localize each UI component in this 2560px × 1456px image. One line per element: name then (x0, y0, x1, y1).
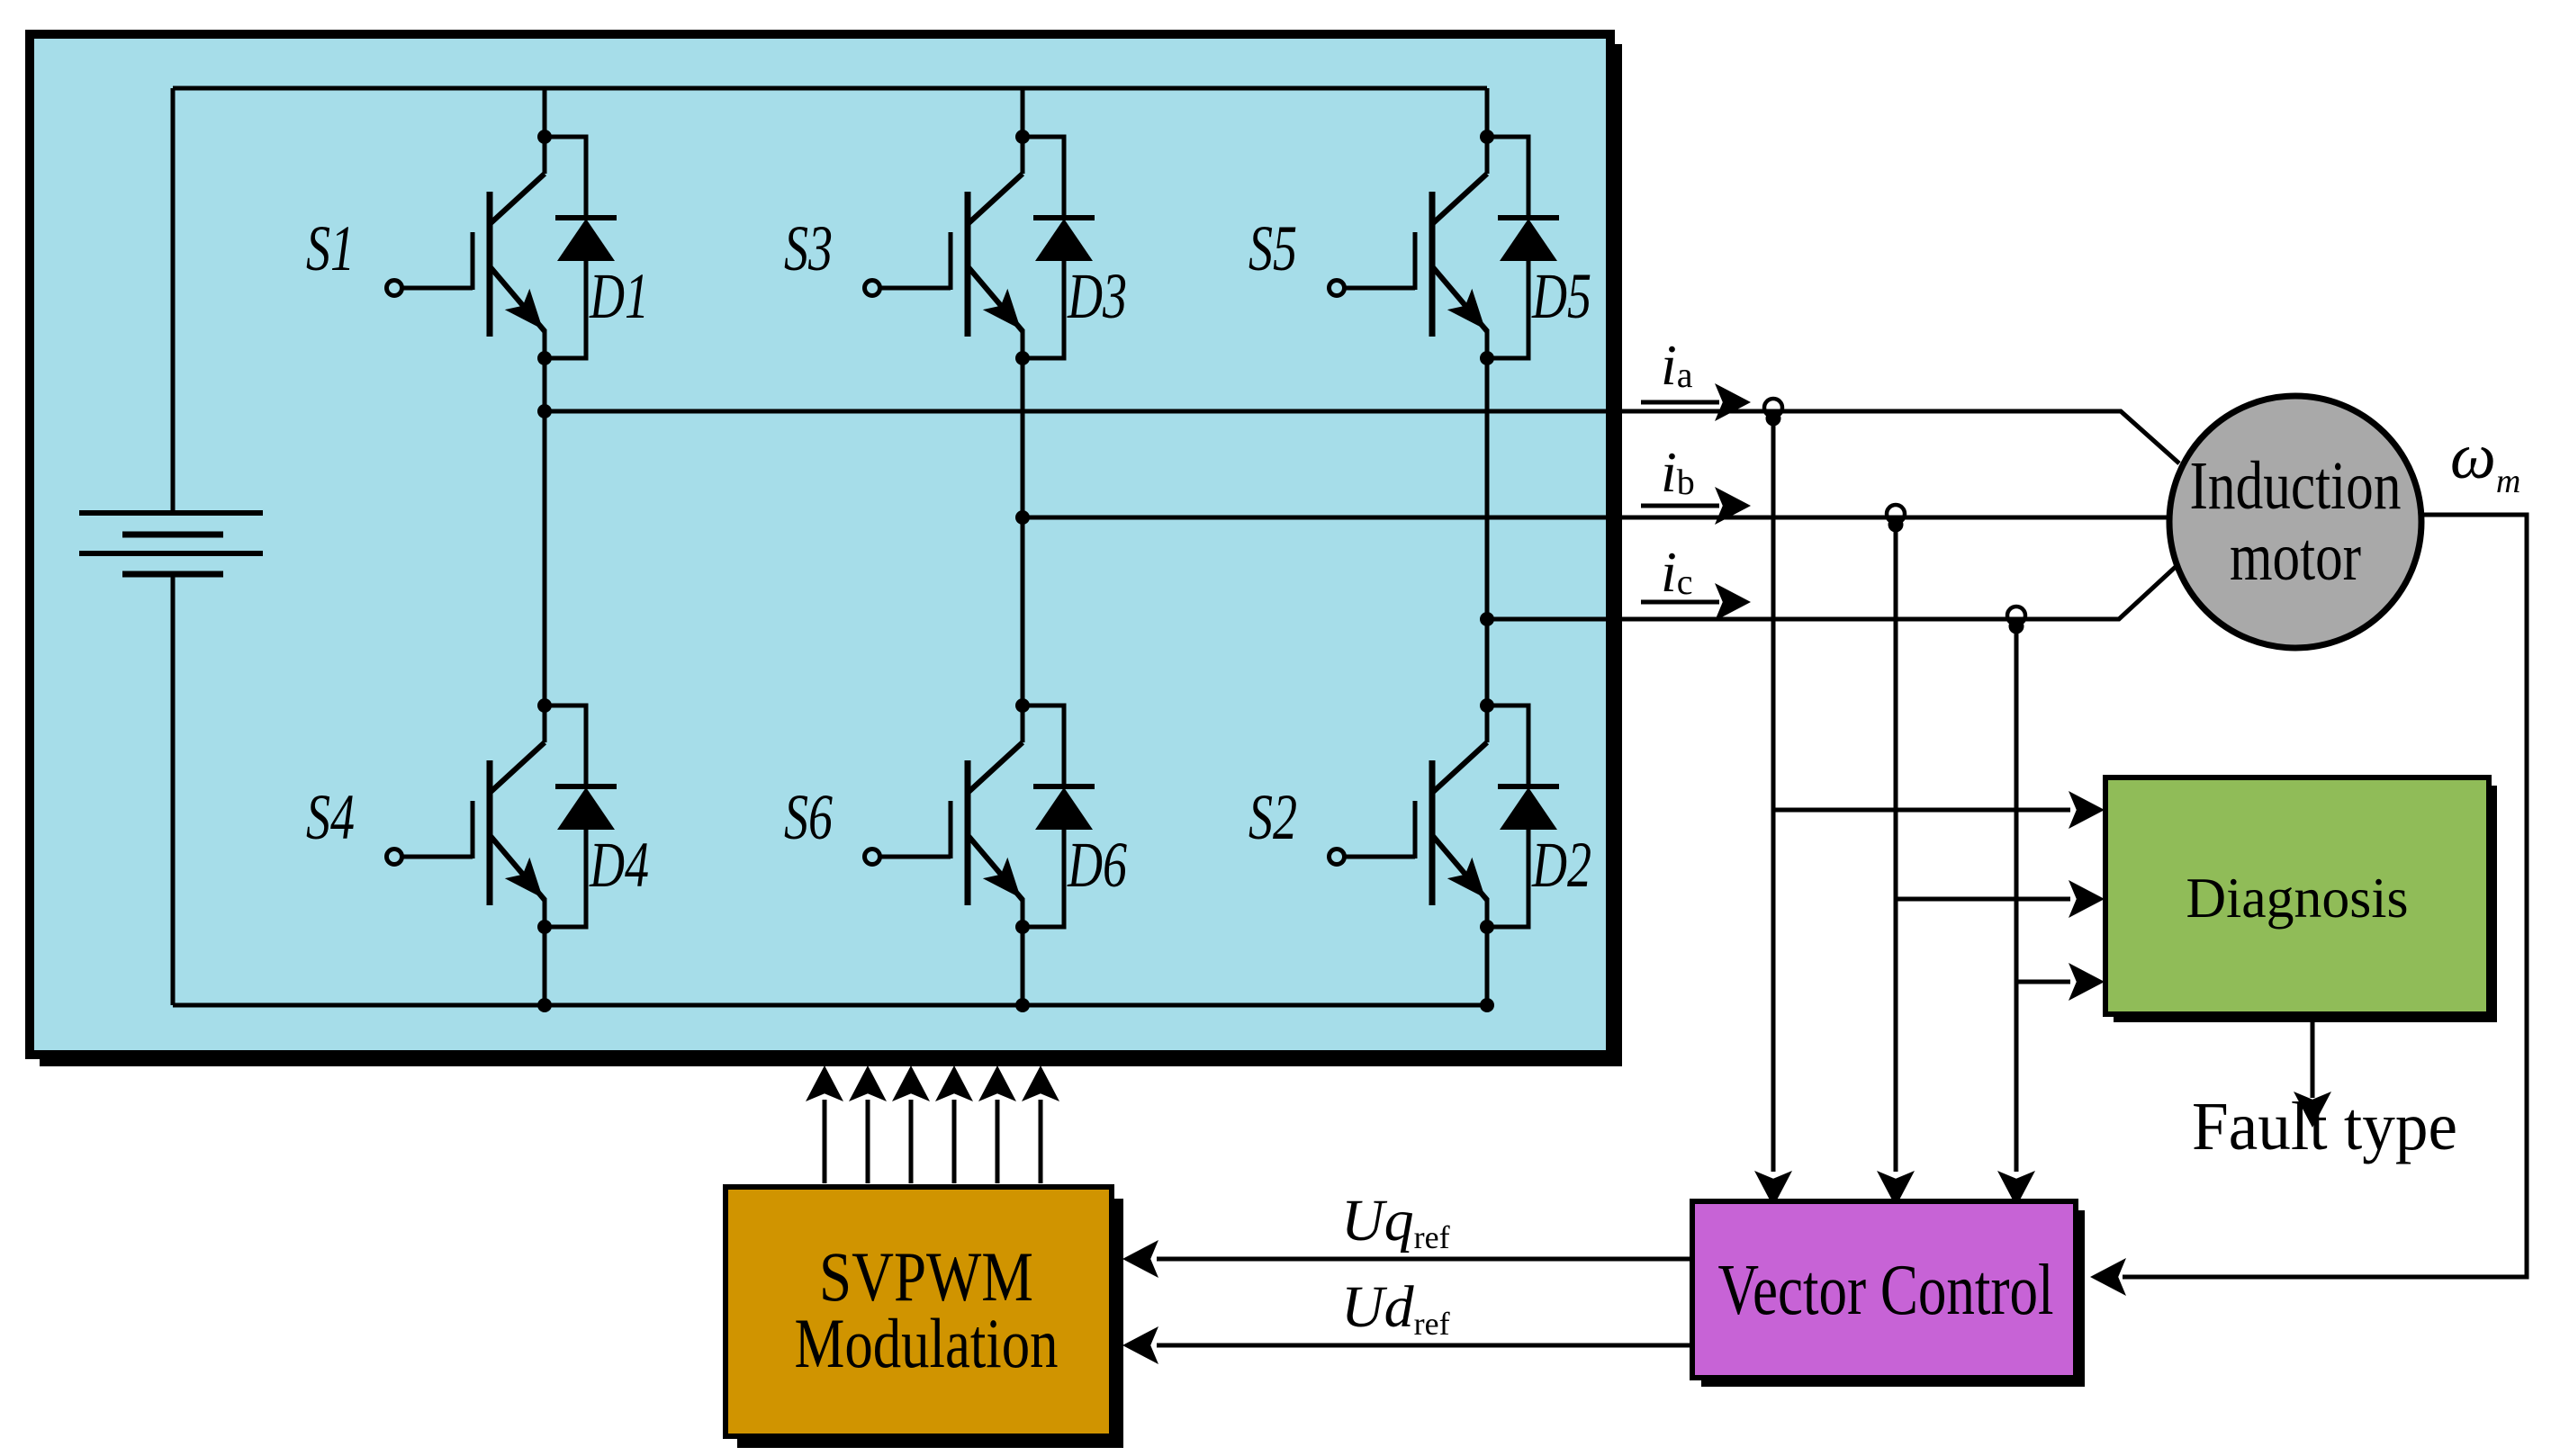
arrow: gate signal 2 into inverter (849, 1065, 887, 1101)
node: current sensor tap phase a (1762, 399, 1784, 427)
collector node of S1 (537, 130, 552, 144)
IGBT transistor S6 (865, 742, 1023, 905)
arrow: omega into vector control (2090, 1258, 2126, 1296)
IGBT transistor S1 (387, 174, 545, 337)
node: current sensor tap phase b (1885, 505, 1906, 533)
arrow: into diagnosis at y=900 (2069, 791, 2105, 829)
svpwm block shadow (737, 1199, 1123, 1448)
wire: Ud_ref (1157, 1344, 1690, 1348)
wire: phase b output (1023, 516, 2171, 520)
svg-text:Vector Control: Vector Control (1718, 1251, 2054, 1330)
diode D6 (1023, 706, 1095, 927)
arrow: gate signal 4 into inverter (935, 1065, 973, 1101)
arrow: Ud_ref into SVPWM (1122, 1326, 1158, 1364)
wire: gate signal 5 (996, 1100, 1000, 1183)
arrow: i_a direction (1641, 400, 1719, 405)
emitter node of S4 (537, 920, 552, 934)
arrow: i_b direction (1641, 504, 1719, 508)
arrow: gate signal 3 into inverter (892, 1065, 930, 1101)
arrow: tap c into vector control (1997, 1171, 2035, 1207)
collector node of S3 (1015, 130, 1030, 144)
svg-text:D4: D4 (589, 829, 649, 901)
wire: phase c output (1487, 564, 2178, 619)
svg-text:S3: S3 (784, 212, 833, 284)
svg-text:D6: D6 (1067, 829, 1127, 901)
vector control block shadow (1701, 1210, 2085, 1387)
wire: leg 2 upper (1021, 88, 1025, 174)
arrow: gate signal 6 into inverter (1022, 1065, 1059, 1101)
wire: phase a output (545, 411, 2179, 463)
collector node of S6 (1015, 698, 1030, 713)
junction: leg 3 to negative rail (1480, 998, 1494, 1012)
svg-text:S1: S1 (306, 212, 355, 284)
IGBT transistor S4 (387, 742, 545, 905)
wire: branch x=1970 to diagnosis (1773, 808, 2070, 813)
wire: battery negative lead (171, 574, 176, 1005)
node: current sensor tap phase c (2006, 607, 2027, 634)
inverter block (light blue) (30, 34, 1610, 1055)
arrow: gate signal 1 into inverter (806, 1065, 843, 1101)
diode D4 (545, 706, 617, 927)
collector node of S5 (1480, 130, 1494, 144)
wire: tap c down to vector control (2015, 625, 2019, 1172)
diagnosis block (2105, 777, 2489, 1014)
wire: diagnosis output (2311, 1017, 2315, 1098)
arrow: into diagnosis at y=999 (2069, 880, 2105, 918)
svg-text:Fault type: Fault type (2192, 1089, 2457, 1164)
arrow: gate signal 5 into inverter (978, 1065, 1016, 1101)
svpwm modulation block (726, 1187, 1112, 1436)
wire: leg 2 lower (1021, 898, 1025, 1005)
wire: leg 1 middle (543, 329, 547, 742)
arrow: to fault type (2294, 1092, 2331, 1128)
diode D3 (1023, 137, 1095, 358)
junction: phase a at leg (537, 404, 552, 418)
IGBT transistor S2 (1330, 742, 1488, 905)
IGBT transistor S3 (865, 174, 1023, 337)
inverter block shadow (40, 44, 1622, 1066)
wire: tap b down to vector control (1894, 523, 1898, 1172)
emitter node of S5 (1480, 351, 1494, 365)
svg-text:D2: D2 (1531, 829, 1591, 901)
IGBT transistor S5 (1330, 174, 1488, 337)
diode D5 (1487, 137, 1559, 358)
svg-text:S4: S4 (306, 781, 355, 853)
svg-text:Induction: Induction (2190, 448, 2402, 524)
wire: leg 3 middle (1485, 329, 1490, 742)
arrow: tap b into vector control (1877, 1171, 1915, 1207)
svg-text:S6: S6 (784, 781, 833, 853)
wire: negative DC rail (173, 1003, 1487, 1008)
collector node of S4 (537, 698, 552, 713)
arrow: i_c direction (1641, 600, 1719, 605)
arrow: into diagnosis at y=1091 (2069, 963, 2105, 1001)
junction: phase b at leg (1015, 510, 1030, 525)
arrow: tap a into vector control (1754, 1171, 1792, 1207)
svg-text:D5: D5 (1531, 260, 1591, 332)
emitter node of S6 (1015, 920, 1030, 934)
emitter node of S2 (1480, 920, 1494, 934)
wire: tap a down to vector control (1771, 417, 1776, 1172)
svg-text:S2: S2 (1248, 781, 1297, 853)
junction: phase c at leg (1480, 612, 1494, 626)
induction motor (2169, 396, 2421, 648)
diode D2 (1487, 706, 1559, 927)
wire: speed feedback omega_m (2123, 515, 2527, 1277)
wire: branch x=2106 to diagnosis (1896, 897, 2070, 902)
junction: leg 1 to negative rail (537, 998, 552, 1012)
svg-text:Modulation: Modulation (795, 1304, 1059, 1382)
wire: leg 3 lower (1485, 898, 1490, 1005)
svg-text:D1: D1 (589, 260, 649, 332)
svg-text:D3: D3 (1067, 260, 1127, 332)
diagnosis block shadow (2114, 786, 2497, 1022)
wire: leg 2 middle (1021, 329, 1025, 742)
svg-text:Diagnosis: Diagnosis (2186, 866, 2409, 930)
arrow: Uq_ref into SVPWM (1122, 1240, 1158, 1278)
wire: gate signal 2 (866, 1100, 870, 1183)
emitter node of S3 (1015, 351, 1030, 365)
wire: gate signal 3 (909, 1100, 914, 1183)
wire: branch x=2240 to diagnosis (2016, 980, 2070, 984)
svg-text:S5: S5 (1248, 212, 1297, 284)
wire: battery positive lead (171, 88, 176, 513)
wire: leg 3 upper (1485, 88, 1490, 174)
wire: Uq_ref (1157, 1257, 1690, 1262)
collector node of S2 (1480, 698, 1494, 713)
wire: gate signal 4 (952, 1100, 957, 1183)
diode D1 (545, 137, 617, 358)
battery DC source (79, 513, 263, 574)
wire: gate signal 1 (823, 1100, 827, 1183)
vector control block (1692, 1201, 2076, 1378)
svg-text:motor: motor (2230, 519, 2361, 595)
wire: positive DC rail (173, 86, 1487, 91)
wire: leg 1 upper (543, 88, 547, 174)
emitter node of S1 (537, 351, 552, 365)
junction: leg 2 to negative rail (1015, 998, 1030, 1012)
wire: gate signal 6 (1039, 1100, 1043, 1183)
wire: leg 1 lower (543, 898, 547, 1005)
